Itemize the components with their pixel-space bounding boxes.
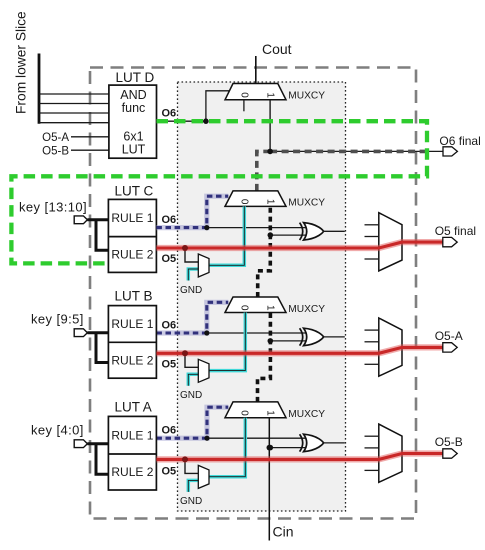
node carry junction row C xyxy=(268,232,274,238)
wire XOR output row A xyxy=(324,442,345,444)
LUT C box xyxy=(108,199,156,272)
svg-text:O5: O5 xyxy=(162,253,177,265)
svg-text:O5-A: O5-A xyxy=(42,132,69,144)
MUXCY D body xyxy=(225,84,286,100)
svg-text:Cout: Cout xyxy=(262,41,292,57)
output mux row A input stub xyxy=(365,447,379,449)
svg-text:O6 final: O6 final xyxy=(439,134,480,148)
O5 net row B (red) xyxy=(156,347,442,353)
XOR gate row B xyxy=(304,328,324,345)
wire bundle line 1 to LUT D xyxy=(39,93,109,95)
node O6 junction row B xyxy=(204,330,209,335)
output mux row C input stub xyxy=(365,236,379,238)
node Cin tap junction xyxy=(267,445,273,451)
cyan DI wire row B xyxy=(209,313,245,371)
svg-text:RULE 2: RULE 2 xyxy=(111,248,153,262)
GND mux row C body xyxy=(198,254,209,277)
LUT B divider xyxy=(108,341,156,343)
node O5 junction row B xyxy=(182,350,188,356)
svg-text:O5-A: O5-A xyxy=(435,329,463,343)
GND mux row B output wire xyxy=(209,313,245,371)
O5-B output pentagon xyxy=(443,449,457,458)
wire bundle line 3 to LUT D xyxy=(39,112,109,114)
node O5 junction row A xyxy=(182,456,188,462)
svg-text:LUT C: LUT C xyxy=(115,184,154,199)
svg-text:key [13:10]: key [13:10] xyxy=(19,200,87,215)
MUXCY B body xyxy=(225,297,286,313)
svg-text:O5: O5 xyxy=(162,358,177,370)
cyan DI wire row C xyxy=(209,206,244,265)
O5-A output pentagon xyxy=(443,343,457,352)
node O5 junction row C xyxy=(182,245,188,251)
svg-text:AND: AND xyxy=(120,88,146,102)
svg-text:O6: O6 xyxy=(162,425,177,437)
GND mux row B body xyxy=(198,359,209,382)
wire O6 row A to XOR input xyxy=(207,437,307,439)
key B input pentagon xyxy=(74,329,87,337)
svg-text:key [9:5]: key [9:5] xyxy=(31,312,84,327)
wire O6 from LUT D to MUXCY D select xyxy=(157,91,230,121)
svg-text:LUT D: LUT D xyxy=(116,70,155,85)
svg-text:0: 0 xyxy=(238,410,249,416)
O6 final highlight (grey dashed) xyxy=(270,150,430,154)
wire XOR output row B xyxy=(324,336,345,338)
wire O5 tap to GND-mux row C xyxy=(185,248,198,262)
GND mux row C output wire xyxy=(209,206,244,265)
output mux row A xyxy=(379,424,402,482)
wire bundle line 2 to LUT D xyxy=(39,103,109,105)
carry chain MUXCY A to MUXCY B (black dashed) xyxy=(258,313,271,402)
carry chain MUXCY B to MUXCY C (black dashed) xyxy=(258,206,271,297)
svg-text:RULE 1: RULE 1 xyxy=(111,211,153,225)
XOR gate row C xyxy=(304,223,324,240)
wire O5 tap to GND-mux row B xyxy=(185,353,198,367)
svg-text:GND: GND xyxy=(180,285,202,296)
wire O5 tap to GND-mux row A xyxy=(185,459,198,473)
svg-text:0: 0 xyxy=(238,305,249,311)
cyan DI wire row A xyxy=(209,418,245,477)
svg-text:MUXCY: MUXCY xyxy=(288,198,325,209)
LUT A divider xyxy=(108,453,156,455)
output mux row B input stub xyxy=(365,352,379,354)
output mux row C input stub xyxy=(365,258,379,260)
key C wire to RULE 1 xyxy=(87,218,108,221)
input bundle trunk from lower slice xyxy=(38,54,41,124)
key A wire to RULE 1 xyxy=(87,442,108,445)
output mux row A input stub xyxy=(365,458,379,460)
key A wire to RULE 2 xyxy=(96,444,108,475)
svg-text:MUXCY: MUXCY xyxy=(288,91,325,102)
wire O6 row C to XOR input xyxy=(207,227,307,229)
svg-text:GND: GND xyxy=(180,390,202,401)
O5 net row A (red) xyxy=(156,454,442,460)
LUT D box xyxy=(109,85,157,158)
node O6-D junction xyxy=(203,118,209,124)
MUXCY C body xyxy=(225,191,286,207)
svg-text:O5-B: O5-B xyxy=(42,146,69,158)
O6 select net row A (navy dashed) xyxy=(156,407,228,438)
svg-text:MUXCY: MUXCY xyxy=(288,304,325,315)
GND wire row C (cyan) xyxy=(188,269,198,281)
wire carry tap row C to XOR input xyxy=(270,234,307,236)
carry logic region box (dotted, grey fill) xyxy=(178,82,346,511)
wire carry tap row B to XOR input xyxy=(270,340,307,342)
carry out of MUXCY C (grey dashed, O6 final net) xyxy=(257,151,270,191)
wire MUXCY D 1-input from carry junction xyxy=(269,100,271,152)
svg-text:1: 1 xyxy=(265,92,276,98)
key B wire to RULE 1 xyxy=(87,331,108,334)
node carry junction row A xyxy=(268,445,274,451)
svg-text:O6: O6 xyxy=(162,214,177,226)
node carry-D junction xyxy=(267,149,273,155)
node O6 junction row A xyxy=(204,436,209,441)
svg-text:From lower Slice: From lower Slice xyxy=(14,11,29,114)
key C input pentagon xyxy=(74,216,87,224)
svg-text:LUT B: LUT B xyxy=(115,289,153,304)
O6 select net row C (navy dashed) xyxy=(156,196,228,227)
node O6 junction row C xyxy=(204,225,209,230)
wire XOR output row C xyxy=(324,230,345,232)
O5 net row C (red) xyxy=(156,242,442,248)
svg-text:func: func xyxy=(122,101,146,115)
svg-text:Cin: Cin xyxy=(273,524,294,540)
svg-text:0: 0 xyxy=(238,92,249,98)
LUT C divider xyxy=(108,236,156,238)
output mux row B input stub xyxy=(365,329,379,331)
wire Cout from MUXCY D xyxy=(255,56,257,84)
svg-text:O6: O6 xyxy=(162,319,177,331)
output mux row C input stub xyxy=(365,247,379,249)
svg-text:O5 final: O5 final xyxy=(435,224,476,238)
svg-text:MUXCY: MUXCY xyxy=(288,409,325,420)
slice outer boundary box (grey dashed) xyxy=(90,68,416,519)
svg-text:1: 1 xyxy=(265,410,276,416)
svg-text:1: 1 xyxy=(265,305,276,311)
output mux row B xyxy=(379,318,402,376)
svg-text:key [4:0]: key [4:0] xyxy=(31,423,84,438)
svg-text:RULE 1: RULE 1 xyxy=(111,317,153,331)
svg-text:O5: O5 xyxy=(162,465,177,477)
svg-text:O5-B: O5-B xyxy=(435,435,463,449)
GND wire row B (cyan) xyxy=(188,374,198,386)
GND mux row A output wire xyxy=(209,418,245,477)
wire bundle line 4 to LUT D xyxy=(39,122,109,124)
svg-text:RULE 1: RULE 1 xyxy=(111,428,153,442)
wire carry tap row A to XOR input xyxy=(270,447,307,449)
svg-text:LUT: LUT xyxy=(122,143,146,157)
node carry junction row B xyxy=(268,338,274,344)
svg-text:GND: GND xyxy=(180,496,202,507)
svg-text:6x1: 6x1 xyxy=(123,130,143,144)
wire O5-A to LUT D xyxy=(71,136,109,138)
wire O6 row B to XOR input xyxy=(207,332,307,334)
key A input pentagon xyxy=(74,440,87,448)
O6 select net row B (navy dashed) xyxy=(156,302,228,333)
wire Cin to MUXCY A 1-input xyxy=(268,418,270,541)
svg-text:O6: O6 xyxy=(162,108,177,120)
wire O6 final (thin) xyxy=(270,150,443,152)
wire O5-B to LUT D xyxy=(71,149,109,151)
output mux row B input stub xyxy=(365,363,379,365)
svg-text:1: 1 xyxy=(265,199,276,205)
LUT A box xyxy=(108,416,156,490)
svg-text:0: 0 xyxy=(238,199,249,205)
output mux row C input stub xyxy=(365,224,379,226)
O5 final output pentagon xyxy=(443,237,457,246)
output mux row B input stub xyxy=(365,341,379,343)
MUXCY D 0-input stub xyxy=(243,100,245,112)
O6 final output pentagon xyxy=(443,147,457,156)
svg-text:LUT A: LUT A xyxy=(115,399,152,414)
output mux row A input stub xyxy=(365,469,379,471)
key C wire to RULE 2 xyxy=(96,220,108,251)
XOR gate row A xyxy=(304,434,324,451)
GND mux row A body xyxy=(198,465,209,488)
LUT B box xyxy=(108,306,156,379)
output mux row A input stub xyxy=(365,435,379,437)
MUXCY A body xyxy=(225,402,286,418)
svg-text:RULE 2: RULE 2 xyxy=(111,353,153,367)
GND wire row A (cyan) xyxy=(188,480,198,492)
O6-D feedback net (green dashed highlight) xyxy=(11,121,427,263)
output mux row C xyxy=(379,213,402,271)
svg-text:RULE 2: RULE 2 xyxy=(111,465,153,479)
key B wire to RULE 2 xyxy=(96,333,108,363)
